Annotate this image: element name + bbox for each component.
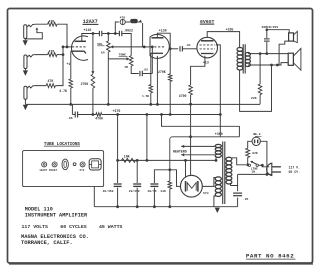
resistor R3 47K (input 3) — [46, 84, 55, 88]
svg-text:60 CYCLES: 60 CYCLES — [60, 224, 86, 230]
wire +270 down to filter rail (right) — [146, 115, 148, 161]
wire coupling to output tube — [170, 48, 178, 50]
svg-text:.02: .02 — [142, 67, 148, 71]
T2 primary winding — [226, 157, 232, 161]
resistor R6 470 cathode V2 — [189, 85, 193, 95]
wire J2 to grid node — [57, 54, 63, 56]
filter rail — [118, 159, 147, 161]
svg-text:4700: 4700 — [95, 117, 103, 121]
SP2 return stair — [279, 41, 289, 65]
chassis ground arrow — [215, 208, 220, 213]
wire from tube-locations box — [93, 187, 95, 207]
V1a cathode lead — [70, 51, 72, 79]
input jack J3 — [24, 86, 27, 99]
+300 line from rectifier — [170, 137, 240, 170]
filter cap C10 20/75 — [154, 170, 180, 187]
capacitor C1 coupling — [98, 31, 100, 36]
wire tone cap to grid-line drop — [142, 73, 152, 75]
B distribution loop — [162, 115, 240, 137]
resistor R8 4700 dropping — [96, 113, 102, 117]
ground rail bottom — [94, 206, 237, 208]
speaker SP2 (small) — [289, 33, 294, 41]
ground bus — [25, 103, 260, 105]
T2 core — [222, 142, 224, 205]
wire filter rail to rectifier plate — [147, 159, 216, 161]
svg-text:47K: 47K — [48, 79, 54, 83]
svg-text:33K: 33K — [160, 190, 166, 193]
svg-text:+1: +1 — [67, 62, 71, 66]
node plate rail — [92, 32, 95, 35]
filter cap C9 20/450 — [136, 160, 138, 183]
5Y3 filament — [187, 183, 196, 191]
svg-text:270K: 270K — [81, 82, 89, 86]
svg-text:.0022: .0022 — [123, 28, 133, 32]
svg-text:45 WATTS: 45 WATTS — [99, 224, 123, 230]
tube locations chassis box — [23, 151, 104, 187]
jack J2 tip contact — [27, 55, 48, 58]
wire +270 down to filter rail (left) — [117, 115, 119, 161]
V1b plate lead — [157, 33, 170, 49]
resistor R1 47K (input 1) — [48, 22, 57, 26]
transformer icon — [89, 159, 101, 170]
switch to plug — [258, 164, 262, 166]
jack J1 tip contact — [27, 24, 48, 27]
socket 5Y3 — [80, 162, 85, 167]
switch SW line — [248, 164, 250, 166]
capacitor C3 470 (disc) — [120, 19, 125, 24]
node grid V1a — [62, 53, 65, 56]
svg-text:1M: 1M — [124, 65, 128, 69]
lamp right lead — [260, 141, 267, 174]
heater lines to tubes — [181, 145, 184, 148]
svg-text:20/450: 20/450 — [129, 189, 140, 193]
secondary bottom lead — [248, 63, 288, 65]
wire feedback to ground bus — [259, 95, 261, 105]
svg-text:+270: +270 — [113, 109, 121, 113]
capacitor C4 .02 tone — [139, 71, 141, 76]
component dark box in bright loop — [125, 21, 130, 23]
input jack J1 — [24, 25, 27, 39]
V2 cathode lead — [191, 56, 205, 85]
resistor R9 10K filter — [122, 158, 136, 162]
left plate lead — [177, 185, 181, 187]
svg-text:.05: .05 — [243, 198, 249, 201]
svg-text:5Y3: 5Y3 — [80, 169, 85, 172]
svg-text:20/75: 20/75 — [148, 189, 157, 193]
potentiometer TONE 1M — [129, 56, 133, 66]
resistor R7 22K feedback — [259, 54, 261, 84]
tube V1b 12AX7 (second half) — [150, 34, 169, 58]
lamp left lead to resistor — [248, 141, 252, 148]
capacitor C11 .05 line bypass — [237, 186, 239, 192]
wire drop from grid line — [151, 47, 153, 74]
svg-text:10K: 10K — [124, 154, 130, 158]
svg-text:+110: +110 — [84, 28, 92, 32]
TONE wiper arrow — [127, 57, 130, 60]
jack J1 shorting contact — [25, 29, 42, 39]
svg-text:82K: 82K — [252, 152, 258, 155]
resistor R4 4.7K cathode V1a — [69, 79, 73, 88]
capacitor C5 .01 coupling — [179, 46, 181, 51]
wire grid to V1a — [63, 46, 72, 48]
node wiper junction — [143, 46, 146, 49]
svg-text:1M: 1M — [101, 51, 105, 55]
svg-text:+335: +335 — [226, 27, 234, 31]
svg-text:TONE: TONE — [119, 52, 127, 56]
svg-text:VOL: VOL — [97, 42, 103, 46]
svg-text:60 CY.: 60 CY. — [289, 170, 301, 174]
output transformer T1 primary — [237, 48, 243, 52]
T1 secondary — [245, 53, 250, 56]
V2 plate lead to output transformer — [207, 32, 239, 48]
svg-text:5Y3: 5Y3 — [203, 191, 209, 195]
secondary top lead — [248, 53, 288, 55]
T1 core — [242, 44, 244, 73]
wire plate rail V1a — [93, 33, 99, 35]
wire to tone pot — [122, 34, 131, 56]
power transformer T2 heater winding — [215, 144, 221, 147]
V2 screen lead — [216, 45, 221, 137]
socket 12AX7 — [42, 162, 47, 167]
T2 primary bottom lead — [231, 183, 238, 185]
node plate V1b — [169, 47, 172, 50]
svg-text:1.5K: 1.5K — [142, 95, 149, 98]
pilot lamp NE-2 — [252, 137, 260, 145]
heater winding tap — [215, 159, 218, 162]
V1b envelope-bottom lead — [156, 56, 158, 105]
svg-text:+136: +136 — [159, 28, 167, 32]
+270 rail — [72, 114, 75, 116]
svg-text:117 VOLTS: 117 VOLTS — [22, 224, 48, 230]
svg-text:20MFD/25V: 20MFD/25V — [262, 25, 279, 29]
filter cap C8 20/450 — [117, 160, 119, 183]
bright loop wire 470 — [115, 22, 119, 34]
resistor R10 33K bleeder — [169, 170, 171, 181]
pilot hole — [73, 163, 76, 166]
resistor R11 82K lamp ballast — [246, 148, 250, 157]
svg-text:+300: +300 — [215, 132, 223, 136]
svg-text:4700: 4700 — [179, 94, 187, 98]
VOL pot bottom to ground bus — [107, 52, 109, 104]
T2 HV secondary winding — [215, 177, 221, 181]
svg-text:.05: .05 — [67, 116, 73, 120]
wire rail to vol pot — [107, 33, 119, 35]
input jack J2 — [24, 55, 27, 69]
tube V1a 12AX7 (first half) — [71, 36, 88, 60]
svg-text:TORRANCE, CALIF.: TORRANCE, CALIF. — [21, 240, 73, 246]
AC plug — [267, 163, 272, 175]
wire to ext speaker — [267, 30, 289, 33]
HV winding bottom to ground — [214, 196, 216, 207]
rectifier tube V3 5Y3 — [181, 175, 203, 197]
plug bottom rail — [238, 173, 272, 175]
svg-text:4.7K: 4.7K — [59, 89, 67, 93]
svg-text:MODEL 110: MODEL 110 — [25, 207, 53, 213]
svg-text:20/450: 20/450 — [103, 189, 114, 193]
wire grid V1b — [144, 46, 150, 48]
wire J3 up to grid node — [55, 47, 63, 86]
V1a plate lead — [82, 34, 93, 42]
capacitor C2 .0022 — [118, 31, 120, 36]
svg-text:NE-2: NE-2 — [253, 132, 261, 136]
svg-text:47K: 47K — [49, 19, 55, 23]
right plate lead to HV winding — [202, 178, 215, 187]
socket 6V6GT — [52, 162, 57, 167]
tone pot bottom to cap — [131, 66, 139, 74]
VOL wiper arrow — [110, 45, 113, 48]
svg-text:117 V.: 117 V. — [289, 165, 301, 169]
wire rectifier feed — [190, 104, 192, 175]
T1 primary bottom return — [240, 65, 272, 111]
svg-text:SW.: SW. — [252, 171, 257, 174]
svg-text:12AX7 6V6GT: 12AX7 6V6GT — [39, 169, 57, 172]
svg-text:INSTRUMENT AMPLIFIER: INSTRUMENT AMPLIFIER — [25, 213, 88, 219]
tube V2 6V6GT output — [197, 37, 218, 58]
svg-text:.01: .01 — [185, 43, 191, 47]
svg-text:47K: 47K — [49, 50, 55, 54]
V1b plate load 270K to +270 rail — [169, 49, 171, 74]
V1b cathode resistor 1.5K — [150, 53, 152, 84]
svg-text:22K: 22K — [251, 96, 257, 100]
svg-text:+13: +13 — [203, 61, 209, 65]
svg-text:HEATERS: HEATERS — [173, 149, 187, 153]
wire loop to wiper line — [138, 21, 140, 23]
jack J3 tip contact — [27, 86, 46, 89]
wire J1 to grid node — [57, 24, 67, 47]
svg-text:PART NO 8462: PART NO 8462 — [246, 252, 294, 259]
potentiometer VOL 1M — [107, 34, 109, 42]
svg-text:270K: 270K — [158, 70, 166, 74]
T2 primary top to switch — [232, 158, 246, 165]
fuse holder — [62, 159, 68, 170]
capacitor C7 .05 decoupling — [74, 112, 76, 118]
resistor R5 270K plate load V1a (to +270 rail) — [92, 34, 94, 72]
speaker SP1 (main) — [288, 53, 293, 65]
resistor R2 47K (input 2) — [48, 53, 57, 57]
svg-text:470: 470 — [120, 15, 126, 19]
